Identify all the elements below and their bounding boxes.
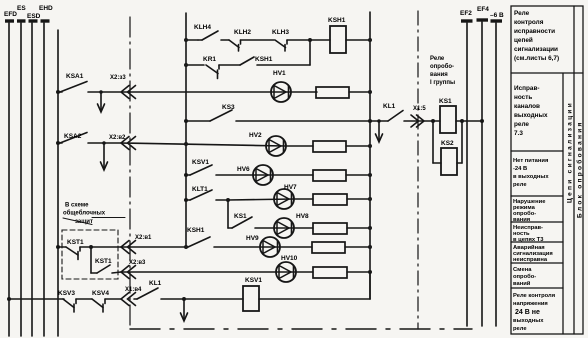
svg-text:EF4: EF4 bbox=[477, 6, 489, 13]
svg-text:цепей: цепей bbox=[514, 36, 533, 44]
contact KR1 bbox=[206, 65, 219, 79]
svg-text:опробо-: опробо- bbox=[513, 273, 536, 280]
table cell change of tests bbox=[513, 267, 536, 287]
svg-text:KS1: KS1 bbox=[439, 98, 452, 105]
svg-text:KSA2: KSA2 bbox=[64, 133, 82, 140]
wire lamp-resistor row G bbox=[294, 198, 313, 200]
contact KL1 bottom bbox=[134, 288, 243, 299]
node KS2 loop top bbox=[460, 119, 464, 123]
wire KSV1 to rail bbox=[259, 272, 370, 299]
svg-text:KS2: KS2 bbox=[441, 140, 454, 147]
node rail G bbox=[368, 197, 372, 201]
lamp HV1 bbox=[271, 82, 291, 102]
contact KLH2 bbox=[229, 40, 274, 51]
svg-text:KSH1: KSH1 bbox=[328, 17, 346, 24]
svg-text:Аварийная: Аварийная bbox=[513, 244, 545, 251]
wire row C to lamp bbox=[121, 91, 291, 93]
svg-text:Блок опробования: Блок опробования bbox=[576, 120, 584, 218]
wire resistor-rail row F bbox=[346, 174, 370, 176]
svg-text:KLH4: KLH4 bbox=[194, 24, 211, 31]
svg-text:контроля: контроля bbox=[514, 19, 544, 26]
svg-text:KSH1: KSH1 bbox=[187, 227, 205, 234]
svg-text:X2:в2: X2:в2 bbox=[109, 135, 126, 141]
block boundary bottom dashed bbox=[130, 328, 472, 330]
leader line under note bbox=[63, 218, 125, 225]
svg-text:общеблочных: общеблочных bbox=[63, 210, 106, 217]
bus -6V bbox=[491, 21, 503, 326]
svg-text:KST1: KST1 bbox=[67, 239, 84, 246]
wire row E bbox=[121, 143, 286, 146]
contact KL1 bbox=[388, 111, 403, 122]
wire resistor-rail row J bbox=[347, 271, 370, 273]
contact KSV3 bbox=[63, 299, 92, 312]
svg-text:опробо-: опробо- bbox=[513, 210, 536, 217]
wire row D left bbox=[184, 119, 210, 123]
svg-text:KS1: KS1 bbox=[234, 213, 247, 220]
svg-text:HV9: HV9 bbox=[246, 235, 259, 242]
svg-text:Нет питания: Нет питания bbox=[513, 158, 548, 164]
wire lamp-resistor row H bbox=[294, 227, 313, 229]
svg-text:выходных: выходных bbox=[513, 318, 544, 324]
bus ES bbox=[17, 21, 26, 336]
svg-text:Смена: Смена bbox=[513, 267, 532, 273]
contact KSV4 bbox=[92, 299, 121, 312]
contact KSA2 bbox=[56, 133, 121, 146]
svg-text:В схеме: В схеме bbox=[65, 203, 89, 209]
lamp HV6 bbox=[253, 165, 273, 185]
contact KST1 lower bbox=[97, 265, 121, 273]
svg-text:каналов: каналов bbox=[514, 103, 540, 110]
svg-text:-24 В: -24 В bbox=[513, 166, 527, 172]
resistor row G bbox=[313, 194, 347, 205]
wire resistor-rail row C bbox=[349, 91, 370, 93]
wire row D right bbox=[370, 120, 388, 122]
arrow down row D bbox=[376, 119, 383, 142]
bus EF2 bbox=[461, 21, 473, 326]
wire row A bbox=[186, 39, 198, 41]
wire resistor-rail row H bbox=[347, 227, 370, 229]
node rail D bbox=[368, 119, 372, 123]
node KS1 branch bbox=[431, 119, 435, 123]
lamp HV7 bbox=[274, 189, 294, 209]
svg-text:X2:з3: X2:з3 bbox=[110, 75, 126, 81]
resistor row J bbox=[313, 267, 347, 278]
node rail C bbox=[368, 90, 372, 94]
svg-text:KLT1: KLT1 bbox=[192, 186, 208, 193]
wire resistor-rail row E bbox=[346, 145, 370, 147]
annotation table frame bbox=[511, 6, 583, 334]
wire row I to rail bbox=[121, 246, 188, 248]
svg-text:KLH2: KLH2 bbox=[234, 29, 251, 36]
arrow down row C bbox=[98, 90, 105, 112]
svg-text:7.3: 7.3 bbox=[514, 130, 523, 137]
svg-text:Реле: Реле bbox=[430, 56, 445, 62]
table cell voltage monitoring relay bbox=[513, 293, 555, 332]
wire row J bbox=[121, 271, 296, 273]
table cell relay monitoring signal circuits bbox=[514, 10, 559, 62]
lamp HV8 bbox=[274, 218, 294, 238]
contact KSA1 bbox=[56, 82, 120, 95]
wire KST1 feed bbox=[56, 245, 66, 249]
svg-text:KSA1: KSA1 bbox=[66, 73, 84, 80]
svg-text:KR1: KR1 bbox=[203, 56, 216, 63]
bus ESD bbox=[29, 21, 38, 336]
svg-text:HV1: HV1 bbox=[273, 70, 286, 77]
svg-text:исправности: исправности bbox=[514, 28, 555, 35]
contact KSH1 row I bbox=[188, 237, 280, 247]
rail right vertical bbox=[369, 12, 371, 299]
svg-text:реле: реле bbox=[514, 121, 529, 128]
node EF4 junction bbox=[480, 119, 484, 123]
svg-text:вания: вания bbox=[513, 217, 530, 223]
resistor row H bbox=[313, 223, 347, 234]
svg-text:Исправ-: Исправ- bbox=[514, 85, 540, 92]
note test relays group I bbox=[430, 56, 455, 86]
node rail-A bbox=[184, 38, 188, 42]
svg-text:неисправна: неисправна bbox=[513, 257, 548, 263]
svg-text:KSV1: KSV1 bbox=[192, 159, 209, 166]
wire row B bbox=[186, 64, 204, 66]
node branch G-H bbox=[226, 198, 294, 228]
svg-text:EHD: EHD bbox=[39, 5, 53, 12]
node rail E right bbox=[368, 144, 372, 148]
svg-text:выходных: выходных bbox=[514, 112, 548, 119]
svg-text:ваний: ваний bbox=[513, 280, 531, 287]
table cell fault in T3 circuits bbox=[513, 225, 544, 243]
node rail-B bbox=[184, 63, 188, 67]
node A-B junction bbox=[308, 38, 330, 65]
svg-text:реле: реле bbox=[513, 182, 527, 188]
arrow down row E bbox=[101, 141, 108, 170]
contact KSV1 row F bbox=[184, 165, 273, 177]
wire resistor-rail row G bbox=[347, 198, 370, 200]
svg-text:X2:в3: X2:в3 bbox=[129, 260, 146, 266]
svg-text:в выходных: в выходных bbox=[513, 174, 549, 180]
bus unnamed left supply bbox=[57, 30, 59, 336]
node rail I bbox=[184, 245, 188, 249]
svg-text:KS3: KS3 bbox=[222, 104, 235, 111]
svg-text:HV2: HV2 bbox=[249, 132, 262, 139]
wire lamp-resistor row E bbox=[286, 145, 313, 147]
lamp HV10 bbox=[276, 262, 296, 282]
table cell no -24V power bbox=[513, 158, 549, 188]
connector X2:в1 bbox=[121, 241, 136, 254]
node rail A right bbox=[368, 38, 372, 42]
wire row K from EFD bbox=[7, 297, 64, 301]
resistor row E bbox=[313, 141, 346, 152]
svg-text:вания: вания bbox=[430, 72, 448, 78]
wire to connector bbox=[404, 120, 433, 122]
node rail F bbox=[368, 173, 372, 177]
rail left vertical bbox=[185, 13, 187, 247]
wire coil to rail bbox=[346, 39, 370, 41]
contact KLT1 row G bbox=[184, 190, 228, 202]
svg-text:KLH3: KLH3 bbox=[272, 29, 289, 36]
svg-text:KSV4: KSV4 bbox=[92, 290, 109, 297]
svg-text:HV8: HV8 bbox=[296, 213, 309, 220]
svg-text:X2:в1: X2:в1 bbox=[135, 235, 152, 241]
contact KS1 row H bbox=[228, 217, 294, 228]
node rail E bbox=[184, 142, 188, 146]
svg-text:сигнализации: сигнализации bbox=[514, 46, 558, 53]
node rail H bbox=[368, 226, 372, 230]
contact KSH1 row B bbox=[219, 57, 310, 65]
connector X2:з3 bbox=[121, 86, 136, 99]
lamp HV2 bbox=[266, 136, 286, 156]
svg-text:KL1: KL1 bbox=[383, 103, 396, 110]
connector X2:в3 bbox=[121, 266, 136, 279]
svg-text:ность: ность bbox=[514, 94, 532, 101]
svg-text:X1:5: X1:5 bbox=[413, 106, 426, 112]
svg-text:24 В не: 24 В не bbox=[515, 309, 540, 316]
wire KS1 to EF4 bbox=[456, 120, 482, 122]
dashed box common-block protections bbox=[62, 230, 118, 279]
resistor row F bbox=[313, 170, 346, 181]
block boundary left dash-dot bbox=[129, 17, 131, 329]
wire KS2 loop right bbox=[457, 121, 462, 163]
node rail I right bbox=[368, 245, 372, 249]
wire lamp-resistor row C bbox=[291, 91, 317, 93]
bus EHD bbox=[41, 21, 50, 336]
table cell health of output relay channels bbox=[514, 85, 548, 137]
wire resistor-rail row I bbox=[345, 246, 370, 248]
svg-text:–6 В: –6 В bbox=[490, 12, 504, 19]
relay coil KS1 bbox=[440, 106, 456, 133]
resistor row I bbox=[312, 242, 345, 253]
svg-text:ES: ES bbox=[17, 5, 26, 12]
bus EF4 bbox=[477, 20, 489, 326]
contact KLH4 bbox=[198, 31, 229, 40]
svg-text:HV7: HV7 bbox=[284, 184, 297, 191]
table cell test mode violation bbox=[513, 199, 546, 223]
svg-text:KSV3: KSV3 bbox=[58, 290, 75, 297]
node rail J bbox=[368, 270, 372, 274]
svg-text:Цепи сигнализации: Цепи сигнализации bbox=[567, 101, 574, 203]
wire to KS1 bbox=[433, 120, 440, 122]
connector X1:5 bbox=[411, 115, 424, 127]
relay coil KSH1 bbox=[330, 26, 346, 53]
table cell emergency signaling faulty bbox=[513, 244, 553, 263]
svg-text:(см.листы 6,7): (см.листы 6,7) bbox=[514, 55, 559, 62]
contact KLH3 bbox=[275, 40, 310, 51]
wire lamp-resistor row F bbox=[273, 174, 313, 176]
svg-text:опробо-: опробо- bbox=[430, 63, 454, 70]
wire lamp-resistor row I bbox=[280, 246, 312, 248]
svg-text:X1:в4: X1:в4 bbox=[125, 287, 142, 293]
svg-text:KSH1: KSH1 bbox=[255, 56, 273, 63]
svg-text:KSV1: KSV1 bbox=[245, 277, 262, 284]
bus EFD bbox=[5, 21, 14, 336]
svg-text:EF2: EF2 bbox=[460, 10, 472, 17]
relay coil KS2 bbox=[441, 148, 457, 175]
wire KS2 branch left bbox=[433, 121, 441, 163]
connector X1:в4 bbox=[121, 293, 136, 306]
svg-text:I группы: I группы bbox=[430, 80, 455, 86]
note text in scheme of common-block protections bbox=[63, 203, 106, 226]
node KST1 branch bbox=[89, 245, 121, 273]
wire lamp-resistor row J bbox=[296, 271, 313, 273]
lamp HV9 bbox=[260, 237, 280, 257]
svg-text:Реле контроля: Реле контроля bbox=[513, 293, 555, 299]
svg-text:KST1: KST1 bbox=[95, 258, 112, 265]
connector X2:в2 bbox=[121, 137, 136, 150]
svg-text:Реле: Реле bbox=[514, 10, 530, 17]
svg-text:HV6: HV6 bbox=[237, 166, 250, 173]
relay coil KSV1 bbox=[243, 286, 259, 311]
node arrow K bbox=[181, 297, 188, 321]
contact KS3 bbox=[210, 110, 370, 121]
svg-text:HV10: HV10 bbox=[281, 255, 298, 262]
contact KST1 upper bbox=[66, 247, 91, 260]
svg-text:ESD: ESD bbox=[27, 13, 41, 20]
svg-text:в цепях Т3: в цепях Т3 bbox=[513, 237, 544, 243]
svg-text:реле: реле bbox=[513, 326, 527, 332]
block boundary right dash-dot bbox=[417, 11, 419, 329]
svg-text:KL1: KL1 bbox=[149, 280, 162, 287]
svg-text:EFD: EFD bbox=[4, 11, 17, 18]
resistor row C bbox=[316, 87, 349, 98]
svg-text:напряжения: напряжения bbox=[513, 301, 548, 307]
